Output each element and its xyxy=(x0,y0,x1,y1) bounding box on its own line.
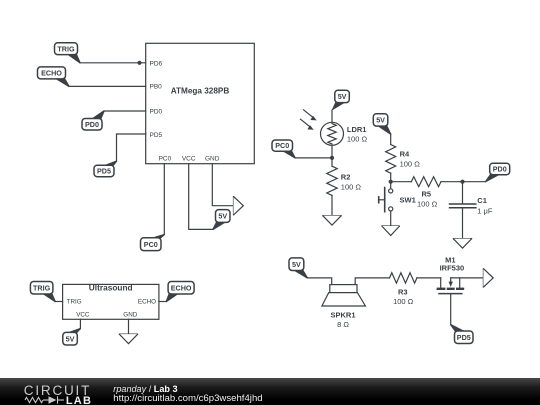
svg-text:5V: 5V xyxy=(338,92,347,101)
svg-text:GND: GND xyxy=(205,156,220,163)
svg-text:5V: 5V xyxy=(292,260,301,269)
svg-text:PB0: PB0 xyxy=(150,84,163,91)
svg-text:PD5: PD5 xyxy=(150,132,163,139)
svg-text:IRF530: IRF530 xyxy=(440,264,465,273)
svg-text:ECHO: ECHO xyxy=(41,69,62,78)
svg-text:PD0: PD0 xyxy=(493,165,507,174)
svg-text:R3: R3 xyxy=(398,288,408,297)
svg-text:5V: 5V xyxy=(376,116,385,125)
svg-text:5V: 5V xyxy=(66,334,75,343)
svg-text:ECHO: ECHO xyxy=(138,298,156,305)
svg-text:100 Ω: 100 Ω xyxy=(400,159,421,168)
svg-text:PC0: PC0 xyxy=(159,156,172,163)
svg-text:Ultrasound: Ultrasound xyxy=(89,283,133,293)
svg-text:PD0: PD0 xyxy=(150,108,163,115)
svg-text:R4: R4 xyxy=(400,149,410,158)
svg-text:VCC: VCC xyxy=(76,311,90,318)
svg-text:LAB: LAB xyxy=(66,395,92,405)
svg-text:PD5: PD5 xyxy=(97,167,111,176)
svg-text:100 Ω: 100 Ω xyxy=(393,297,414,306)
svg-text:ECHO: ECHO xyxy=(171,283,192,292)
svg-text:VCC: VCC xyxy=(182,156,196,163)
svg-text:TRIG: TRIG xyxy=(67,298,82,305)
svg-text:R2: R2 xyxy=(341,173,351,182)
svg-text:8 Ω: 8 Ω xyxy=(337,320,349,329)
svg-text:PD6: PD6 xyxy=(150,60,163,67)
svg-text:ATMega 328PB: ATMega 328PB xyxy=(171,86,230,95)
svg-text:SPKR1: SPKR1 xyxy=(330,310,355,319)
svg-text:100 Ω: 100 Ω xyxy=(417,200,438,209)
svg-text:PD5: PD5 xyxy=(457,333,471,342)
svg-text:R5: R5 xyxy=(422,190,432,199)
svg-text:5V: 5V xyxy=(218,212,227,221)
svg-text:C1: C1 xyxy=(477,196,487,205)
svg-text:PC0: PC0 xyxy=(144,240,158,249)
svg-text:100 Ω: 100 Ω xyxy=(347,135,368,144)
svg-text:GND: GND xyxy=(123,311,137,318)
svg-text:1 μF: 1 μF xyxy=(477,207,493,216)
svg-text:PD0: PD0 xyxy=(85,120,99,129)
svg-text:PC0: PC0 xyxy=(275,141,289,150)
svg-text:TRIG: TRIG xyxy=(57,44,75,53)
svg-text:SW1: SW1 xyxy=(400,195,416,204)
svg-text:100 Ω: 100 Ω xyxy=(341,183,362,192)
svg-text:TRIG: TRIG xyxy=(33,283,51,292)
svg-text:http://circuitlab.com/c6p3wseh: http://circuitlab.com/c6p3wsehf4jhd xyxy=(113,393,262,404)
svg-text:LDR1: LDR1 xyxy=(347,125,367,134)
